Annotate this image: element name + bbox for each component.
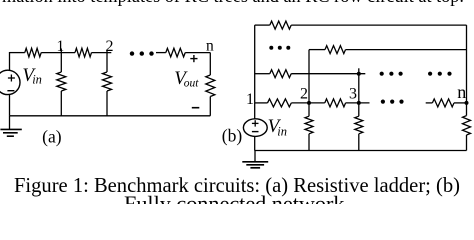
svg-text:n: n [457, 82, 466, 102]
svg-text:Fully connected network.: Fully connected network. [124, 192, 350, 205]
svg-text:3: 3 [349, 86, 357, 103]
svg-text:(a): (a) [42, 127, 62, 147]
svg-text:2: 2 [300, 86, 308, 103]
svg-text:(b): (b) [222, 126, 243, 146]
svg-text:1: 1 [246, 91, 254, 108]
svg-text:mation into templates of RC tr: mation into templates of RC trees and an… [2, 0, 464, 7]
svg-text:in: in [277, 124, 287, 138]
svg-text:1: 1 [57, 38, 65, 55]
svg-text:out: out [184, 77, 200, 89]
svg-text:2: 2 [106, 38, 114, 55]
svg-text:in: in [32, 72, 42, 86]
svg-text:n: n [206, 38, 214, 55]
